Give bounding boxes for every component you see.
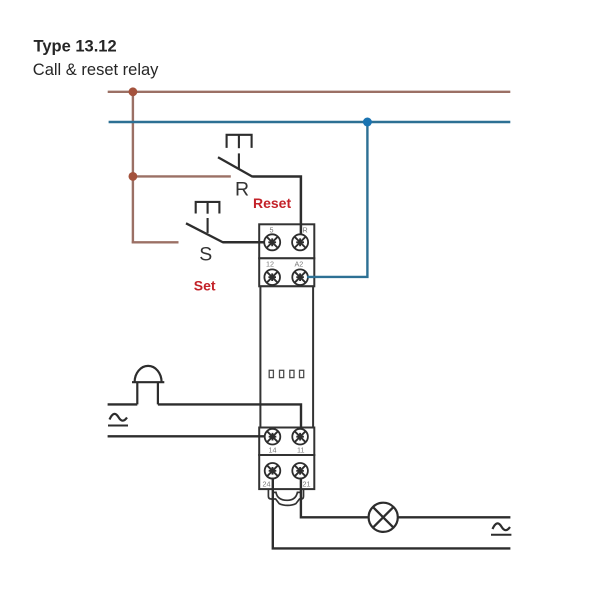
wire N blue bus (109, 121, 511, 123)
screw terminal 11 (292, 429, 308, 445)
AC source tilde left (110, 414, 128, 421)
svg-text:S: S (199, 243, 212, 265)
svg-text:24: 24 (263, 480, 271, 489)
indicator squares on relay body (269, 370, 304, 377)
relay DIN clip foot (268, 489, 303, 505)
svg-text:21: 21 (303, 480, 311, 489)
svg-text:14: 14 (269, 446, 277, 455)
lamp E1 (369, 503, 398, 532)
relay terminal box top (5, R) (259, 224, 314, 258)
svg-text:A2: A2 (295, 260, 304, 269)
buzzer B1 dome (132, 366, 164, 382)
wire R switch to terminal R (252, 177, 301, 236)
screw terminal 21 (292, 463, 308, 479)
relay DIN clip inner notch (273, 492, 301, 500)
pushbutton R actuator (227, 135, 252, 169)
screw terminal A2 (292, 269, 308, 285)
svg-text:12: 12 (266, 260, 274, 269)
svg-text:Type 13.12: Type 13.12 (34, 38, 117, 56)
svg-text:R: R (303, 226, 308, 235)
screw terminal 5 (264, 234, 280, 250)
relay body U1 (260, 286, 313, 427)
svg-text:Set: Set (194, 278, 216, 294)
AC source underline left (108, 425, 128, 427)
wire lamp to AC right (398, 516, 510, 518)
wire terminal 21 to lamp (301, 478, 368, 518)
wire AC stub to buzzer (108, 403, 138, 405)
pushbutton R contact arm (218, 157, 253, 177)
relay terminal box 3 (14, 11) (259, 428, 314, 456)
screw terminal R (292, 234, 308, 250)
svg-text:Reset: Reset (253, 195, 291, 211)
wire L brown bus (108, 91, 511, 93)
screw terminal 14 (265, 429, 281, 445)
relay terminal box 2 (12, A2) (259, 258, 314, 286)
AC source tilde right (493, 523, 511, 530)
svg-text:R: R (235, 178, 249, 200)
screw terminal 24 (265, 463, 281, 479)
buzzer neck leads (137, 382, 158, 404)
wire brown vertical drop (132, 92, 134, 244)
pushbutton S contact arm (186, 223, 223, 242)
AC source underline right (491, 534, 511, 536)
svg-text:Call & reset relay: Call & reset relay (33, 61, 159, 79)
wire brown branch to R switch (133, 175, 231, 177)
screw terminal 12 (264, 269, 280, 285)
pushbutton S actuator (196, 202, 220, 233)
wire S switch to terminal 5 (223, 241, 265, 244)
node junction dot L2 (129, 172, 138, 181)
wire AC to terminal 14 (108, 435, 265, 437)
relay terminal box 4 (24, 21) (259, 455, 314, 489)
wire terminal 24 down (273, 478, 511, 549)
wire buzzer to terminal 11 (158, 404, 301, 429)
svg-text:11: 11 (297, 446, 304, 455)
node junction dot N (363, 118, 372, 127)
wire blue drop to A2 (307, 122, 367, 277)
node junction dot L1 (129, 87, 138, 96)
svg-text:5: 5 (270, 226, 274, 235)
wire brown lead to S switch (132, 241, 179, 243)
